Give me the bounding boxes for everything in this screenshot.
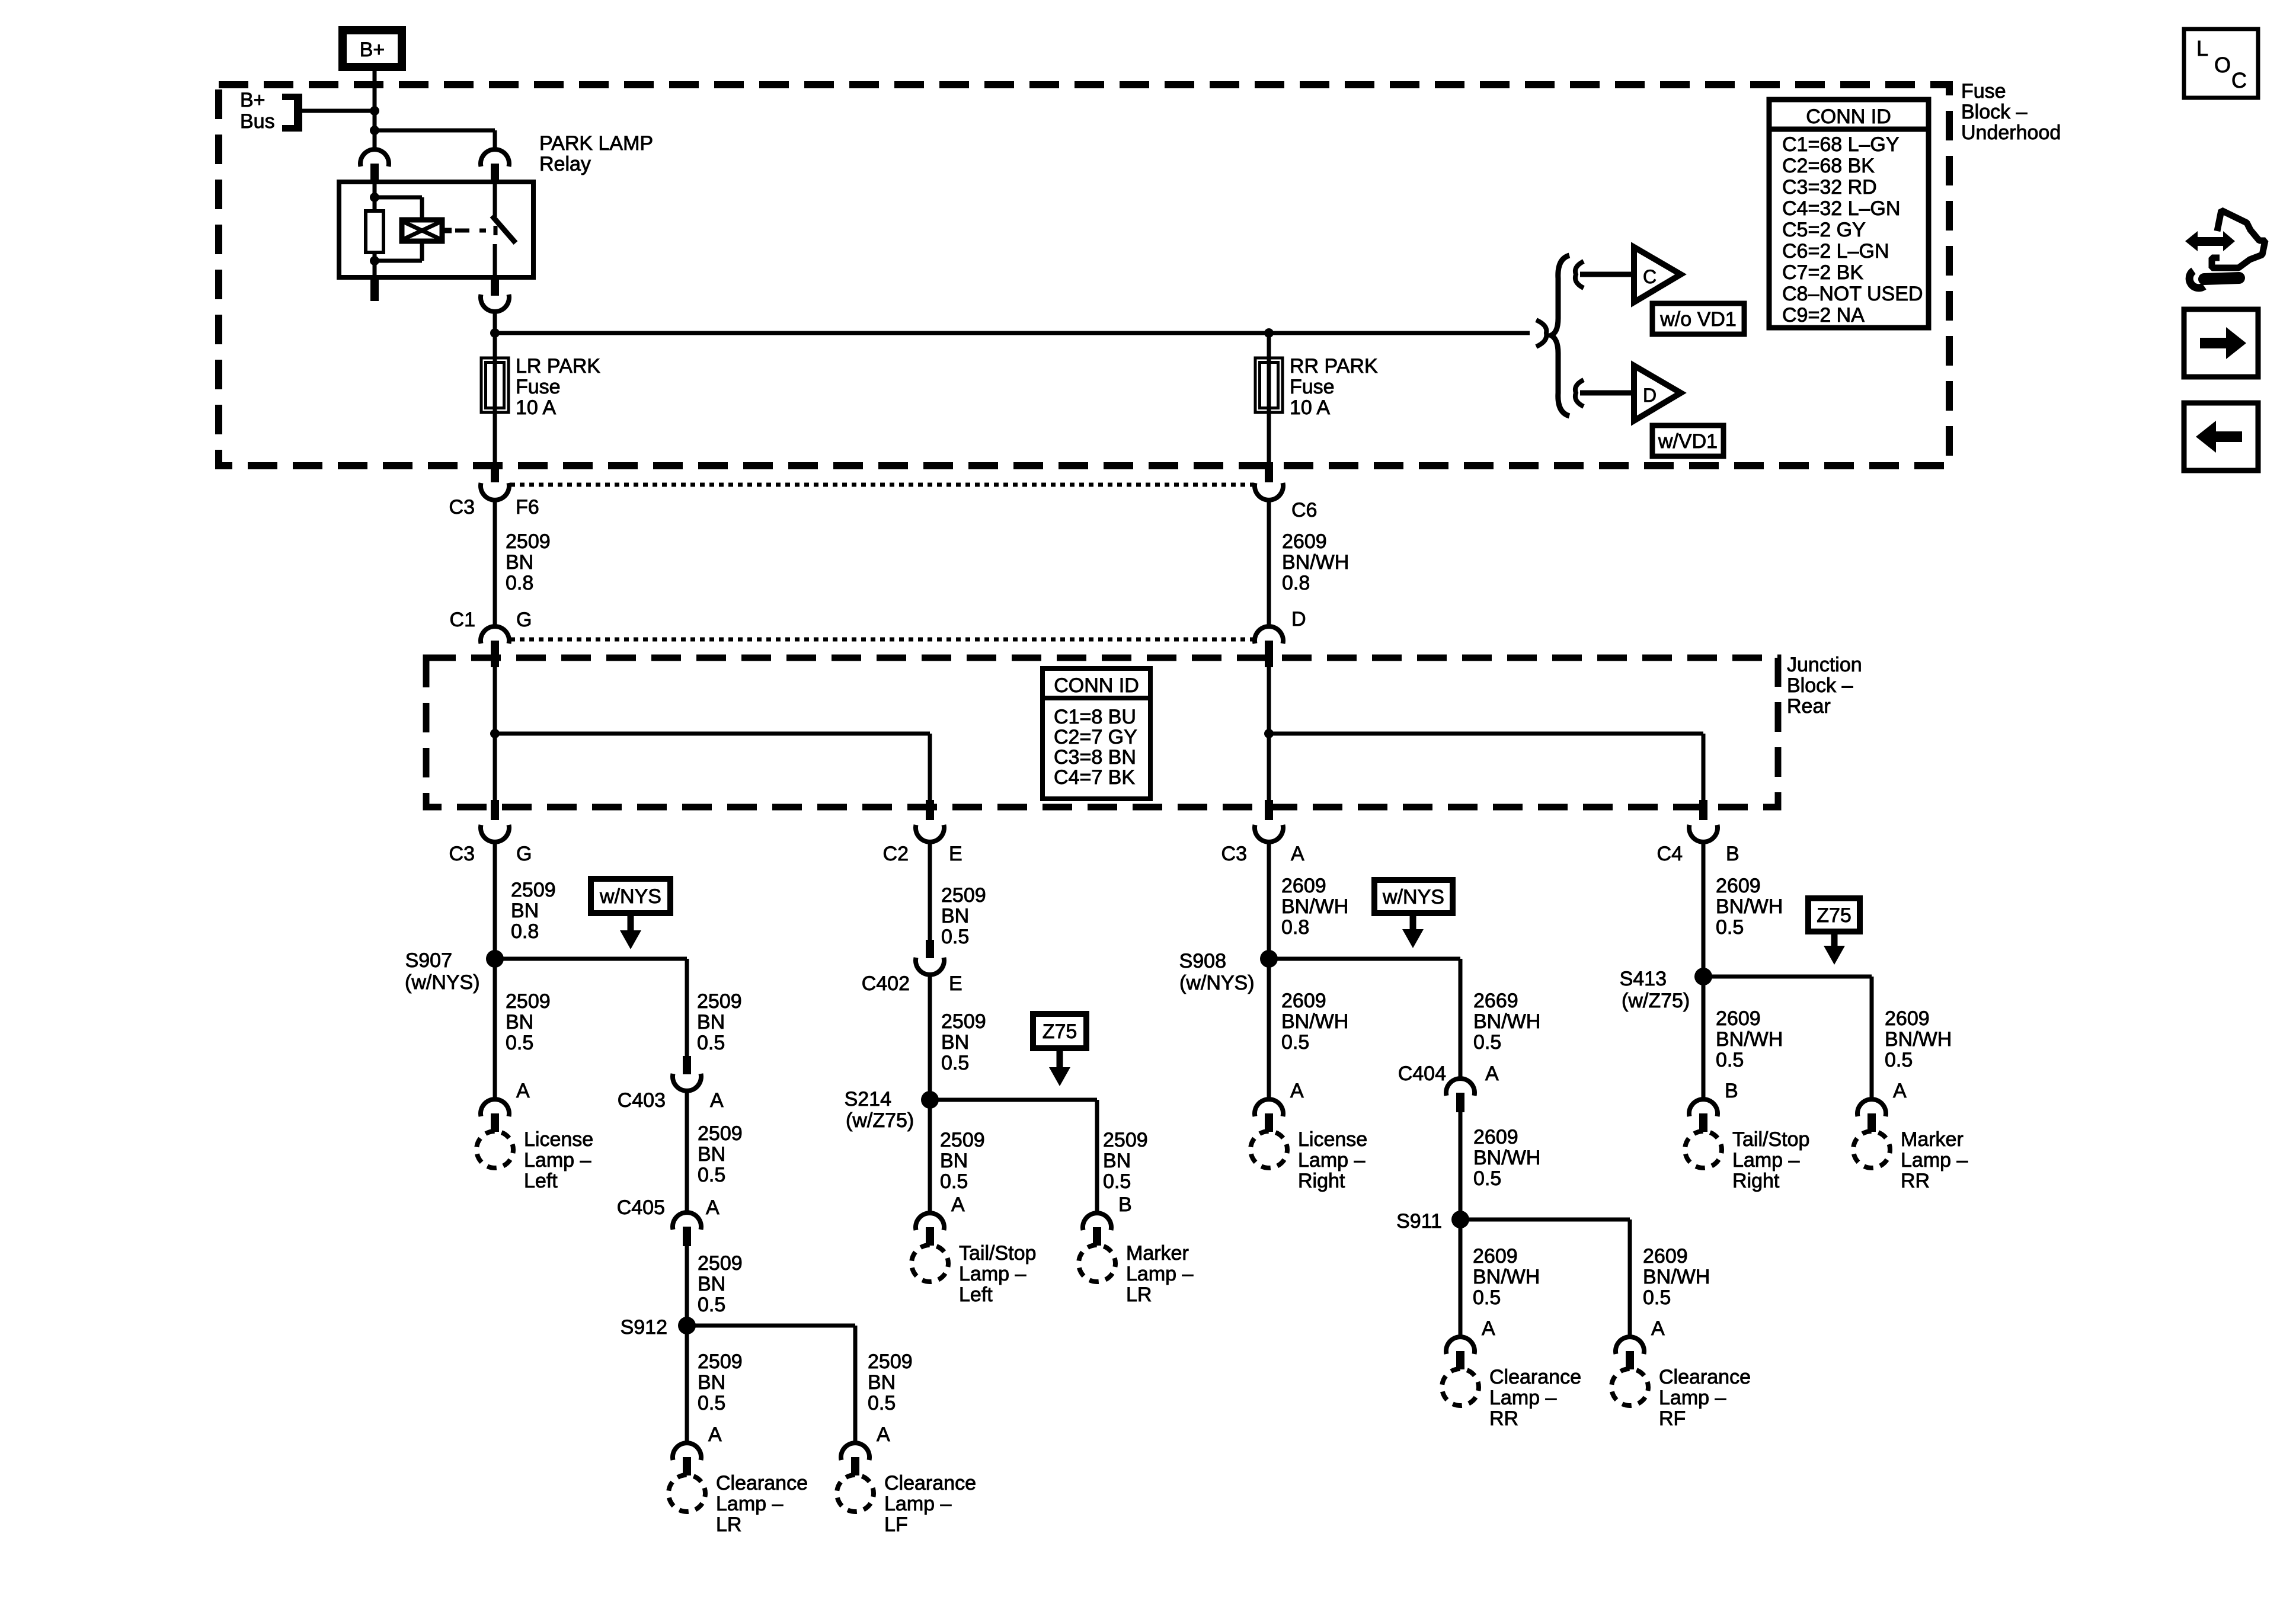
relay K1 PARK LAMP box [339,182,533,277]
svg-text:0.5: 0.5 [698,1294,725,1316]
svg-text:S214: S214 [845,1088,891,1110]
svg-text:0.5: 0.5 [940,1170,968,1193]
Clearance Lamp - RF connector arc [1616,1337,1644,1354]
svg-text:Right: Right [1732,1170,1780,1192]
svg-text:D: D [1643,385,1657,406]
CONN ID table fuse block [1769,100,1929,328]
inline connector dotted line lower [510,638,1253,642]
svg-text:C404: C404 [1398,1062,1446,1085]
svg-text:Underhood: Underhood [1961,121,2061,144]
vehicle service icon body [2212,210,2265,268]
svg-text:BN/WH: BN/WH [1716,1028,1783,1051]
vehicle service icon wrench [2189,271,2204,288]
wire into LR PARK fuse [493,333,497,462]
relay coil ground pin stub [370,277,379,301]
svg-text:2509: 2509 [506,990,551,1013]
svg-text:C402: C402 [862,972,910,995]
svg-text:RR: RR [1489,1407,1518,1430]
svg-text:2509: 2509 [511,879,556,901]
relay switch connector arc [481,149,509,167]
svg-text:Clearance: Clearance [884,1472,976,1494]
junction block - rear dashed border [426,658,1778,807]
wire relay output [493,311,497,333]
svg-text:C2: C2 [883,843,909,865]
svg-text:RF: RF [1659,1407,1686,1430]
svg-text:BN: BN [697,1011,725,1033]
B+ power feed box [343,30,402,67]
Clearance Lamp - LF terminal pin [851,1457,859,1475]
svg-text:2609: 2609 [1473,1245,1518,1267]
svg-text:0.8: 0.8 [1281,916,1309,939]
svg-text:BN: BN [868,1371,896,1394]
fuse RR PARK 10A [1255,358,1283,412]
svg-text:Rear: Rear [1787,695,1831,718]
wire to relay switch feed [375,129,495,133]
wire C404 to S911 [1459,1112,1463,1215]
svg-text:C: C [1643,266,1657,287]
svg-text:Relay: Relay [539,153,591,175]
svg-text:C4=32 L–GN: C4=32 L–GN [1782,197,1900,220]
off-page triangle D [1634,366,1681,421]
wire 2509 BN 0.8 segment [493,499,497,628]
svg-text:2509: 2509 [698,1350,743,1373]
Z75 flag box right [1808,898,1860,932]
svg-text:BN: BN [506,551,533,574]
svg-text:B: B [1118,1193,1132,1216]
svg-text:E: E [949,843,962,865]
svg-text:BN: BN [1103,1150,1131,1172]
svg-text:LR PARK: LR PARK [516,355,600,377]
svg-text:2609: 2609 [1282,530,1327,553]
svg-text:(w/NYS): (w/NYS) [1179,972,1255,994]
lamp bulb Marker Lamp - RR [1853,1131,1890,1168]
svg-text:E: E [949,972,962,995]
svg-text:BN/WH: BN/WH [1282,551,1349,574]
svg-text:0.5: 0.5 [941,1052,969,1074]
svg-text:BN: BN [698,1143,725,1166]
svg-text:Right: Right [1298,1170,1345,1192]
svg-text:License: License [1298,1128,1367,1151]
svg-text:0.5: 0.5 [1885,1049,1913,1071]
svg-text:10 A: 10 A [516,396,556,419]
lower branch curl [1575,380,1584,406]
svg-text:BN/WH: BN/WH [1473,1266,1540,1288]
w/NYS flag box right [1374,880,1453,913]
svg-text:0.5: 0.5 [698,1392,725,1414]
node junction left splice [490,729,500,738]
svg-text:BN/WH: BN/WH [1281,895,1348,918]
Tail/Stop Lamp - Right connector arc [1689,1099,1718,1116]
svg-text:2609: 2609 [1716,875,1761,897]
pin E out [926,800,934,820]
svg-text:BN: BN [511,900,539,922]
svg-text:10 A: 10 A [1290,396,1330,419]
svg-text:BN/WH: BN/WH [1716,895,1783,918]
lamp bulb Clearance Lamp - LR [669,1475,705,1512]
connector C6 arc [1255,483,1283,500]
svg-text:License: License [524,1128,593,1151]
wire to triangle D [1580,391,1634,396]
svg-text:Block –: Block – [1961,101,2028,123]
svg-text:Fuse: Fuse [516,376,561,398]
svg-text:C3: C3 [449,843,475,865]
wire C2/E to C402 [928,842,932,940]
node relay feed junction [370,126,379,135]
w/o VD1 flag box [1652,303,1744,334]
Marker Lamp - RR connector arc [1857,1099,1886,1116]
svg-text:2609: 2609 [1885,1007,1930,1030]
back arrow icon [2215,431,2242,442]
node junction right splice [1264,729,1274,738]
svg-text:Bus: Bus [240,110,275,133]
off-page triangle C [1634,247,1681,302]
relay actuation dashed link [455,229,486,233]
svg-text:0.5: 0.5 [1643,1286,1671,1309]
Marker Lamp - LR terminal pin [1093,1227,1101,1246]
svg-text:0.5: 0.5 [868,1392,896,1414]
big splice brace [1551,255,1569,416]
svg-text:2609: 2609 [1281,990,1326,1012]
relay output pin [491,277,499,296]
svg-text:A: A [710,1089,724,1112]
wire S413 to tail right [1702,977,1706,1099]
wire S908 to license right [1267,959,1271,1099]
wire coil bottom [373,252,377,275]
svg-text:C2=7 GY: C2=7 GY [1054,726,1137,748]
wire right bus in junction block [1267,667,1271,802]
svg-text:2609: 2609 [1281,875,1326,897]
svg-text:G: G [516,843,532,865]
wire into clearance RF [1628,1304,1632,1338]
svg-text:C405: C405 [617,1196,665,1219]
svg-text:A: A [1290,1080,1304,1102]
CONN ID table junction block [1043,668,1150,799]
pin A out [1265,800,1273,820]
svg-text:C6=2 L–GN: C6=2 L–GN [1782,240,1889,263]
svg-text:Lamp –: Lamp – [884,1493,951,1515]
wire into marker LR [1095,1169,1099,1214]
fuse block - underhood dashed border [219,85,1949,466]
node fuse feed left [490,328,500,338]
B+ Bus bracket [294,94,302,132]
svg-text:C6: C6 [1291,499,1317,521]
lamp bulb Clearance Lamp - LF [837,1475,874,1512]
wire S413 branch to marker RR [1703,975,1872,979]
svg-text:0.5: 0.5 [941,926,969,948]
svg-text:2509: 2509 [1103,1129,1148,1151]
wire S908 branch to C404 [1269,957,1460,961]
connector C3/F6 arc [481,483,509,500]
w/NYS arrow right [1410,913,1416,930]
connector C3/G arc [481,825,509,842]
svg-text:CONN ID: CONN ID [1806,105,1891,128]
svg-text:C9=2 NA: C9=2 NA [1782,304,1865,327]
svg-text:Junction: Junction [1787,654,1862,676]
fuse LR PARK 10A [481,358,509,412]
svg-text:LF: LF [884,1513,908,1536]
relay switch blade [492,216,516,243]
svg-text:B+: B+ [240,89,266,111]
svg-text:C3: C3 [449,496,475,518]
svg-text:A: A [1291,843,1304,865]
svg-text:C1=68 L–GY: C1=68 L–GY [1782,133,1900,156]
svg-text:Fuse: Fuse [1961,80,2006,103]
svg-text:C7=2 BK: C7=2 BK [1782,261,1863,284]
node splice S908 [1260,950,1278,968]
upper branch curl [1575,261,1584,288]
svg-text:0.8: 0.8 [506,572,533,594]
svg-text:B: B [1726,843,1739,865]
svg-text:LR: LR [716,1513,741,1536]
svg-text:G: G [516,609,532,631]
svg-text:BN: BN [941,1031,969,1054]
connector C402 arc [916,958,944,975]
wire S911 branch to RF [1460,1218,1630,1222]
svg-text:BN/WH: BN/WH [1281,1010,1348,1033]
pin C6 right [1265,462,1273,482]
svg-text:A: A [877,1423,890,1446]
node splice S911 [1451,1211,1469,1228]
relay coil connector arc [360,149,389,167]
wire C405 to S912 [685,1246,689,1321]
svg-text:Left: Left [524,1170,558,1192]
wire B+ to bus [373,71,377,151]
lamp bulb Tail/Stop Lamp - Left [912,1245,948,1282]
License Lamp - Left connector arc [481,1099,509,1116]
wire to triangle C [1580,272,1634,277]
connector C405 arc [673,1212,701,1230]
svg-text:2609: 2609 [1643,1245,1688,1267]
wire S912 to clearance LR [685,1326,689,1410]
svg-text:2609: 2609 [1473,1126,1518,1148]
svg-text:2509: 2509 [941,1010,986,1033]
connector D arc [1255,626,1283,644]
svg-text:A: A [516,1080,530,1102]
Clearance Lamp - RF terminal pin [1626,1351,1634,1369]
svg-text:LR: LR [1126,1283,1152,1306]
relay switch contact upper [493,184,497,217]
svg-text:Clearance: Clearance [1659,1366,1751,1388]
wire-end brace [1536,320,1546,347]
svg-text:Lamp –: Lamp – [1489,1387,1556,1409]
lamp bulb Marker Lamp - LR [1079,1245,1115,1282]
svg-text:O: O [2214,53,2231,77]
node splice S413 [1694,968,1712,985]
svg-text:A: A [706,1196,720,1219]
Z75 arrow right [1831,932,1838,947]
wire C3/A to S908 [1267,842,1271,954]
svg-text:w/o VD1: w/o VD1 [1659,308,1737,331]
node relay coil bottom [370,256,379,265]
svg-text:BN/WH: BN/WH [1473,1010,1540,1033]
svg-text:0.5: 0.5 [506,1032,533,1054]
svg-text:F6: F6 [516,496,539,518]
lamp bulb License Lamp - Right [1251,1131,1287,1168]
node relay coil top [370,193,379,202]
node splice S907 [486,950,504,968]
Marker Lamp - LR connector arc [1083,1213,1111,1230]
svg-text:BN/WH: BN/WH [1643,1266,1710,1288]
svg-text:0.5: 0.5 [1716,1049,1744,1071]
svg-text:S912: S912 [621,1316,667,1339]
wire into clearance LR [685,1410,689,1444]
wire S907 to license lamp left [493,959,497,1099]
connector C404 arc [1446,1078,1475,1096]
svg-text:L: L [2196,36,2208,60]
svg-text:Left: Left [959,1283,993,1306]
pin C404 lower [1456,1093,1464,1112]
pin C405 lower [683,1227,691,1246]
svg-text:Lamp –: Lamp – [1298,1149,1365,1172]
svg-text:A: A [1485,1062,1499,1085]
svg-text:A: A [1482,1317,1495,1340]
wire C4/B to S413 [1702,842,1706,972]
relay switch terminal pin [491,164,499,183]
svg-text:2509: 2509 [940,1129,985,1151]
svg-text:2509: 2509 [698,1122,743,1145]
svg-text:C1=8 BU: C1=8 BU [1054,706,1136,728]
node fuse feed right [1264,328,1274,338]
svg-text:2509: 2509 [941,884,986,907]
svg-text:C4: C4 [1657,843,1683,865]
wire to C2 drop [495,732,930,736]
pin B out [1699,800,1707,820]
svg-text:CONN ID: CONN ID [1054,674,1139,697]
wire coil branch bottom [420,241,424,261]
svg-text:Lamp –: Lamp – [1659,1387,1726,1409]
svg-text:Tail/Stop: Tail/Stop [959,1242,1036,1265]
svg-text:Marker: Marker [1126,1242,1189,1265]
svg-text:C2=68 BK: C2=68 BK [1782,155,1875,177]
svg-text:0.5: 0.5 [1473,1167,1501,1190]
pin F6 left [491,462,499,482]
License Lamp - Left terminal pin [491,1113,499,1132]
svg-text:BN: BN [698,1371,725,1394]
wire left bus in junction block [493,667,497,802]
connector C4/B arc [1689,825,1718,842]
svg-text:2609: 2609 [1716,1007,1761,1030]
inline connector dotted line upper [510,483,1253,487]
Clearance Lamp - LR terminal pin [683,1457,691,1475]
Tail/Stop Lamp - Left connector arc [916,1213,944,1230]
connector C403 arc [673,1074,701,1091]
wire 2609 BN/WH 0.8 segment [1267,499,1271,628]
pin D [1265,641,1273,667]
wire to C4 drop [1269,732,1703,736]
wire C403 to C405 [685,1091,689,1212]
wire S907 branch to C403 [495,957,687,961]
svg-text:C5=2 GY: C5=2 GY [1782,219,1866,241]
Clearance Lamp - RR terminal pin [1456,1351,1464,1369]
forward arrow icon [2200,338,2227,348]
svg-text:0.5: 0.5 [1473,1031,1501,1054]
w/VD1 flag box [1652,425,1723,456]
LOC icon box [2184,29,2258,98]
wire coil top [373,184,377,211]
svg-text:C3: C3 [1221,843,1247,865]
svg-text:0.5: 0.5 [1716,916,1744,939]
wire coil branch top [375,196,422,200]
svg-text:BN: BN [506,1011,533,1033]
svg-text:0.5: 0.5 [698,1164,725,1186]
svg-text:Clearance: Clearance [1489,1366,1581,1388]
svg-text:Block –: Block – [1787,674,1853,697]
svg-text:2509: 2509 [698,1252,743,1275]
Clearance Lamp - LR connector arc [673,1443,701,1460]
svg-text:B+: B+ [360,39,385,61]
pin C402 upper [926,940,934,958]
svg-text:C8–NOT USED: C8–NOT USED [1782,283,1923,305]
svg-text:0.5: 0.5 [697,1032,725,1054]
resistor in relay [366,211,383,252]
wire into tail lamp left [928,1169,932,1214]
svg-text:C1: C1 [450,609,475,631]
connector C3/A arc [1255,825,1283,842]
relay switch contact lower [493,244,497,275]
svg-text:S413: S413 [1620,968,1667,990]
connector C2/E arc [916,825,944,842]
wire C3/G to S907 [493,842,497,954]
svg-text:Lamp –: Lamp – [524,1149,591,1172]
svg-text:RR PARK: RR PARK [1290,355,1378,377]
node splice S214 [921,1091,939,1109]
Marker Lamp - RR terminal pin [1868,1113,1876,1132]
Tail/Stop Lamp - Right terminal pin [1699,1113,1707,1132]
svg-text:2669: 2669 [1473,990,1518,1012]
svg-text:Lamp –: Lamp – [959,1263,1026,1285]
pin C403 upper [683,1056,691,1074]
svg-text:(w/NYS): (w/NYS) [405,971,480,994]
svg-text:D: D [1291,608,1306,630]
lamp bulb Clearance Lamp - RR [1442,1369,1479,1406]
relay coil terminal pin [370,164,379,183]
svg-text:0.5: 0.5 [1281,1031,1309,1054]
svg-text:2509: 2509 [697,990,742,1013]
svg-text:PARK LAMP: PARK LAMP [539,132,653,155]
svg-text:BN/WH: BN/WH [1473,1147,1540,1169]
svg-text:Fuse: Fuse [1290,376,1335,398]
relay output connector arc [481,295,509,312]
svg-text:S911: S911 [1396,1210,1442,1233]
svg-text:(w/Z75): (w/Z75) [1622,990,1690,1012]
svg-text:0.5: 0.5 [1473,1286,1501,1309]
Z75 arrow left [1057,1048,1063,1068]
wire S911 to clearance RR [1459,1219,1463,1304]
wire S912 branch to LF [687,1324,855,1328]
svg-text:A: A [1651,1317,1665,1340]
svg-text:BN: BN [940,1150,968,1172]
svg-text:w/NYS: w/NYS [599,885,661,908]
svg-text:C403: C403 [618,1089,666,1112]
connector C1/G arc [481,626,509,644]
w/NYS flag box left [591,879,670,913]
wire fuse feed bus [495,331,1530,335]
svg-text:2509: 2509 [868,1350,913,1373]
svg-text:Z75: Z75 [1043,1020,1077,1043]
svg-text:B: B [1725,1080,1738,1102]
License Lamp - Right terminal pin [1265,1113,1273,1132]
svg-text:BN: BN [941,905,969,927]
svg-text:RR: RR [1901,1170,1930,1192]
svg-text:0.8: 0.8 [1282,572,1310,594]
wire into clearance LF [853,1410,858,1444]
lamp bulb License Lamp - Left [477,1131,513,1168]
Tail/Stop Lamp - Left terminal pin [926,1227,934,1246]
Clearance Lamp - LF connector arc [841,1443,869,1460]
svg-text:Tail/Stop: Tail/Stop [1732,1128,1809,1151]
w/NYS arrow left [628,913,634,932]
wire S214 to tail lamp left [928,1100,932,1169]
